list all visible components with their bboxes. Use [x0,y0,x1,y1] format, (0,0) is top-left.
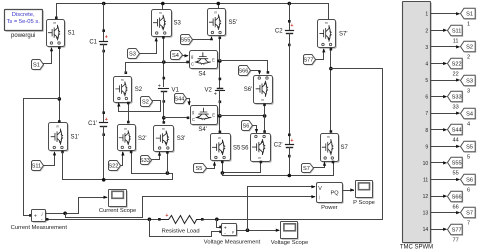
wire S3p gate [152,153,160,160]
wire S2p.E to E-rail [132,153,173,174]
svg-text:m: m [56,125,59,129]
wire i signal to scope [46,198,107,214]
svg-text:S1: S1 [466,12,473,18]
wire S5p collector riser [218,4,220,9]
svg-text:14: 14 [423,227,429,233]
goto tag S55 [449,158,464,169]
wire S5.E to E-rail [222,163,224,173]
svg-text:powergui: powergui [11,33,35,39]
svg-text:V2: V2 [205,87,213,93]
svg-text:E: E [212,57,215,62]
svg-text:6: 6 [425,95,428,101]
wire E-rail lower branch [223,173,334,176]
wire v signal to power block [248,187,315,231]
wire port 4 to goto S22 [431,63,445,65]
svg-text:m: m [327,135,330,139]
svg-text:S5: S5 [195,166,202,172]
capacitor C2 [286,30,294,32]
resistor Resistive Load [158,218,161,221]
svg-text:S1: S1 [68,31,76,37]
svg-text:Voltage Scope: Voltage Scope [271,240,308,246]
svg-text:Current Measurement: Current Measurement [11,225,68,231]
wire V2- to S5.C [219,131,222,134]
svg-text:S7: S7 [466,211,473,217]
IGBT S5 [212,135,232,162]
svg-text:V: V [318,186,322,192]
svg-text:S22: S22 [108,164,118,170]
wire PQ to P scope [343,190,354,192]
svg-text:Power: Power [321,205,338,211]
svg-text:12: 12 [423,194,429,200]
wire S2.C to V1+ node [126,63,190,73]
svg-text:5: 5 [467,154,470,160]
powergui block [6,11,44,32]
IGBT S3' [155,127,175,153]
svg-text:11: 11 [453,38,459,44]
svg-text:+: + [105,35,108,41]
wire i signal to power block [66,197,315,218]
wire S2 gate [119,101,161,112]
node top rail junctions [102,2,106,6]
svg-text:+: + [290,23,293,29]
svg-text:S5: S5 [466,145,473,151]
svg-text:S7': S7' [339,31,347,37]
node V2+ [218,59,222,63]
IGBT S1' [50,124,69,152]
svg-text:S33: S33 [452,95,462,101]
svg-text:11: 11 [423,178,428,184]
svg-text:3: 3 [467,88,470,94]
svg-text:3: 3 [425,45,428,51]
wire S5 gate [207,163,215,169]
svg-text:m: m [124,127,127,131]
wire port 6 to goto S33 [431,96,445,98]
wire port 14 to goto S77 [431,229,445,231]
svg-text:S2': S2' [138,136,146,142]
goto tag S33 [449,92,464,103]
wire S4 gate [183,55,188,57]
svg-text:S4: S4 [172,53,179,59]
wire S3 gate [140,39,157,54]
svg-text:S3: S3 [174,21,182,27]
node E-rail left [166,171,170,175]
svg-text:33: 33 [452,104,458,110]
svg-text:C1': C1' [88,121,97,127]
capacitor C1 [100,41,108,43]
svg-text:S3: S3 [129,52,136,58]
svg-text:m: m [325,21,328,25]
wire S3p.E drop [167,153,169,174]
svg-text:S55: S55 [180,38,190,44]
svg-text:S4': S4' [198,127,206,133]
wire C1 column top [103,4,105,42]
wire S3 collector riser [162,4,164,9]
svg-text:S5: S5 [233,145,241,151]
svg-text:m: m [121,78,124,82]
svg-text:m: m [162,127,165,131]
wire V1 top [163,63,165,87]
svg-text:2: 2 [425,28,428,34]
wire S2p gate [121,153,123,166]
wire port 3 to goto S2 [431,46,458,48]
voltage scope block [282,223,299,240]
svg-text:C2': C2' [274,143,283,149]
from tag S44 [176,95,188,105]
wire V2 top [219,61,221,89]
svg-text:1: 1 [425,12,428,18]
from tag S2 [142,98,154,108]
wire S7 gate [314,163,325,168]
svg-text:TMC SPWM: TMC SPWM [400,245,433,251]
wire port 8 to goto S44 [431,129,445,131]
goto tag S66 [449,192,464,203]
svg-text:S1': S1' [71,135,79,141]
svg-text:7: 7 [425,111,428,117]
node i branch [63,212,67,216]
from tag S55 [182,36,194,46]
svg-text:m: m [218,136,221,140]
svg-text:m: m [53,21,56,25]
svg-text:Voltage Measurement: Voltage Measurement [204,239,261,245]
svg-text:S2: S2 [135,87,143,93]
svg-text:S1: S1 [33,63,40,69]
wire load rail [48,219,160,221]
goto tag S5 [462,142,477,153]
svg-text:+: + [214,91,217,97]
svg-text:13: 13 [423,211,429,217]
svg-text:S66: S66 [238,69,248,75]
wire VM plus [217,220,221,228]
node S6 column [263,114,267,118]
node A (left leg midpoint) [58,97,62,101]
goto tag S22 [449,59,464,70]
wire S1 gate [44,49,52,64]
svg-text:P Scope: P Scope [353,200,375,206]
goto tag S77 [449,225,464,236]
from tag S77 [305,56,317,66]
wire port 9 to goto S5 [431,146,458,148]
svg-text:m: m [261,98,264,102]
current scope block [110,191,128,208]
svg-text:S11: S11 [32,164,42,170]
wire V2 bottom [219,91,221,132]
svg-text:Resistive Load: Resistive Load [162,228,200,234]
svg-text:S33: S33 [140,158,150,164]
svg-text:S5': S5' [229,20,237,26]
node right leg midpoint [329,67,333,71]
node V1+ [162,60,166,64]
svg-text:C: C [191,62,194,67]
svg-text:S2: S2 [466,45,473,51]
wire C1p down to E-rail [103,127,105,180]
goto tag S6 [462,175,477,186]
svg-text:7: 7 [467,220,470,226]
svg-text:77: 77 [452,237,458,243]
wire C2p down to E-rail [289,148,291,176]
wire v signal to scope [237,230,279,232]
from tag S22 [110,162,122,172]
goto tag S11 [449,26,464,37]
svg-text:S7: S7 [341,145,349,151]
IGBT S4' (horizontal) [192,107,219,126]
svg-text:44: 44 [452,137,458,143]
svg-text:C2: C2 [275,28,283,34]
svg-text:9: 9 [425,144,428,150]
svg-text:Current Scope: Current Scope [99,208,136,214]
wire S4p.E to V2- [218,115,220,117]
svg-text:4: 4 [467,121,470,127]
svg-text:+: + [34,214,37,220]
svg-text:S3': S3' [177,136,185,142]
wire S4.E to V2+ [218,60,220,62]
svg-text:66: 66 [452,204,458,210]
wire S4.E to S6p.C [220,61,268,73]
svg-text:+: + [158,83,161,89]
svg-text:m: m [214,11,217,15]
svg-text:S6': S6' [244,87,252,93]
capacitor C2p [286,144,294,146]
svg-text:S44: S44 [452,128,462,134]
from tag S7 [303,165,315,174]
wire S6p gate [251,71,260,74]
svg-text:S4: S4 [466,112,473,118]
svg-text:S77: S77 [303,58,313,64]
svg-text:55: 55 [452,170,458,176]
svg-text:2: 2 [467,54,470,60]
svg-text:4: 4 [425,61,428,67]
node v branch [246,228,250,232]
from tag S33 [142,157,153,166]
from tag S5 [195,165,208,174]
wire S6p.E to S6.C [264,106,266,132]
svg-text:5: 5 [425,78,428,84]
wire S7p collector riser [328,4,330,19]
wire VM minus roundabout [150,220,221,237]
svg-text:S4: S4 [198,71,206,77]
goto tag S3 [462,76,477,87]
wire port 13 to goto S7 [431,212,458,214]
goto tag S2 [462,42,477,53]
wire V2- to S6 column [220,115,265,117]
IGBT S6' [255,77,274,105]
svg-text:S6: S6 [242,124,249,130]
from tag S6 [243,122,254,132]
wire S6.E to E-rail [223,163,261,173]
svg-text:I: I [319,196,321,202]
svg-text:S3: S3 [466,79,473,85]
node V2- [218,114,222,118]
node V1- [162,116,166,120]
wire S1.E to S1p.C [59,48,61,122]
wire S2.E to S2p.C [128,104,130,123]
wire S1 collector riser [56,4,58,18]
svg-text:C1: C1 [89,39,97,45]
wire S7p.E to S7.C [330,50,332,132]
wire S4p gate [187,99,190,105]
svg-text:S66: S66 [452,195,462,201]
power measurement block [318,184,344,204]
svg-text:+: + [290,138,293,144]
node C2p bottom [288,174,292,178]
svg-text:S55: S55 [452,161,462,167]
svg-text:V1: V1 [172,87,180,93]
from tag S44u [172,52,184,61]
wire top DC rail [57,3,329,5]
wire V1 bottom [163,92,165,123]
wire port 11 to goto S6 [431,179,458,181]
svg-text:S11: S11 [452,29,462,35]
wire port 10 to goto S55 [431,162,445,164]
wire S1p.E to bottom rail [63,153,173,180]
from tag S11 [33,162,45,172]
svg-text:6: 6 [467,187,470,193]
wire midpoint to load return [331,69,383,220]
wire S7p gate [316,50,324,60]
svg-text:S2: S2 [142,100,149,106]
svg-text:E: E [212,113,215,118]
wire C2 to C2p [289,34,291,144]
svg-text:1: 1 [467,21,470,27]
node VM plus branch [215,218,219,222]
wire S6 gate [253,126,257,133]
IGBT S1 [48,21,66,48]
svg-text:8: 8 [425,128,428,134]
IGBT S2' [119,126,137,152]
wire port 5 to goto S3 [431,80,458,82]
goto tag S44 [449,125,464,136]
from tag S1 [33,61,45,71]
wire S1p gate [44,153,55,166]
svg-text:S7: S7 [303,166,310,172]
voltage measurement block [223,225,238,237]
svg-text:S77: S77 [452,228,462,234]
svg-text:S44: S44 [174,97,184,103]
svg-text:Discrete,: Discrete, [12,12,35,18]
goto tag S4 [462,109,477,120]
svg-text:PQ: PQ [331,191,340,197]
wire port 7 to goto S4 [431,113,458,115]
svg-text:10: 10 [423,161,429,167]
svg-text:+: + [105,117,108,123]
goto tag S1 [462,9,477,20]
wire node A to current measurement [24,99,60,216]
wire S5p.E drop [219,39,221,61]
subsystem TMC SPWM [404,3,432,244]
wire S7.E drop [333,163,335,176]
from tag S3 [129,50,141,60]
wire port 1 to goto S1 [431,13,458,15]
capacitor C1p [100,122,108,124]
IGBT S4 (horizontal) [191,52,219,70]
IGBT S3 [153,11,173,38]
svg-text:Ts = 5e-05 s.: Ts = 5e-05 s. [7,19,41,25]
wire S5p gate [193,38,212,40]
IGBT S6 [252,135,272,163]
IGBT S5' [209,10,227,37]
wire port 2 to goto S11 [431,30,445,32]
IGBT S2 [115,78,133,104]
svg-text:C: C [192,117,195,122]
wire S3.E drop [163,38,165,63]
wire C2 column top [289,4,291,31]
IGBT S7 [322,135,340,163]
svg-text:+: + [165,213,168,219]
svg-text:m: m [258,156,261,160]
wire port 12 to goto S66 [431,196,445,198]
node E-rail right [221,171,225,175]
current measurement block [33,211,47,223]
P scope block [357,182,374,199]
svg-text:m: m [159,11,162,15]
node VM minus branch [148,218,152,222]
from tag S66 [240,67,252,77]
wire C1 to C1p [103,45,105,123]
svg-text:22: 22 [452,71,458,77]
IGBT S7' [319,21,337,49]
wire V1- to S4p.C [164,117,189,119]
svg-text:S6: S6 [466,178,473,184]
svg-text:S22: S22 [452,62,462,68]
svg-text:S6: S6 [241,145,249,151]
goto tag S7 [462,208,477,219]
